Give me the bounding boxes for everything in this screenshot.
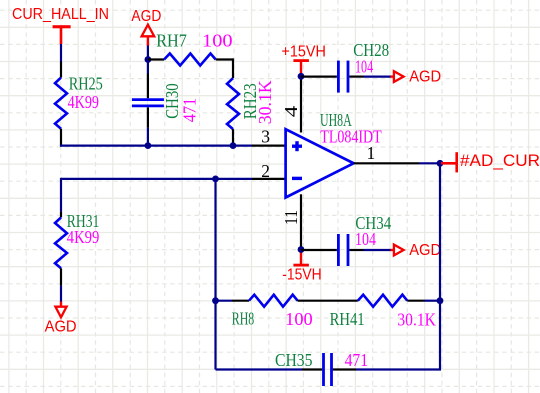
resistor RH31 — [55, 211, 100, 286]
svg-text:4K99: 4K99 — [68, 92, 100, 112]
power AGD (right of CH34) — [391, 242, 442, 259]
svg-text:471: 471 — [345, 350, 369, 370]
power AGD (right of CH28) — [391, 69, 442, 86]
pin 4 lead — [300, 76, 302, 132]
svg-text:4K99: 4K99 — [67, 227, 100, 247]
svg-text:100: 100 — [202, 31, 233, 51]
svg-text:AGD: AGD — [45, 319, 77, 336]
node junction RH7/CH30 — [145, 56, 152, 63]
pin 11 lead — [300, 194, 302, 249]
svg-text:471: 471 — [180, 98, 200, 123]
capacitor CH30 — [132, 74, 200, 128]
svg-text:AGD: AGD — [409, 242, 441, 259]
wire feedback left vertical — [214, 179, 216, 370]
resistor RH7 — [148, 31, 233, 66]
svg-text:2: 2 — [261, 161, 270, 181]
resistor RH23 — [227, 58, 275, 146]
wire — [60, 44, 62, 62]
capacitor CH28 — [338, 40, 389, 93]
wire output net — [419, 162, 441, 164]
op-amp U (UH8A TL084IDT) — [286, 110, 382, 198]
wire pin3 net — [60, 145, 252, 147]
wire — [364, 249, 392, 251]
wire — [364, 75, 392, 77]
svg-text:30.1K: 30.1K — [255, 80, 275, 124]
svg-text:CH35: CH35 — [275, 350, 313, 370]
svg-text:1: 1 — [367, 143, 376, 163]
node junction pin2/feedback — [212, 176, 219, 183]
svg-text:4: 4 — [281, 105, 301, 117]
wire — [425, 300, 441, 302]
svg-text:104: 104 — [355, 229, 376, 249]
pin 1 lead — [354, 162, 419, 164]
svg-text:104: 104 — [355, 57, 373, 77]
svg-text:100: 100 — [285, 309, 313, 329]
node junction output — [437, 160, 444, 167]
node junction CH30 bottom — [145, 142, 152, 149]
resistor RH25 — [55, 62, 103, 146]
resistor RH8 — [232, 295, 358, 330]
svg-text:+15VH: +15VH — [281, 44, 326, 61]
node junction RH8/left — [212, 297, 219, 304]
power -15VH — [282, 250, 322, 284]
svg-text:RH8: RH8 — [232, 308, 255, 328]
wire — [301, 75, 337, 77]
port #AD_CUR — [441, 151, 540, 173]
svg-text:RH7: RH7 — [156, 31, 187, 51]
capacitor CH34 — [338, 213, 391, 266]
op-amp UH8A pins 2/3 leads — [252, 146, 286, 179]
wire — [147, 128, 149, 147]
svg-text:CUR_HALL_IN: CUR_HALL_IN — [12, 6, 109, 23]
wire — [216, 300, 233, 302]
node junction pin11/-15VH — [298, 246, 305, 253]
svg-text:AGD: AGD — [409, 69, 441, 86]
wire feedback right vertical — [439, 163, 441, 369]
wire — [301, 249, 337, 251]
node junction pin4/+15VH — [298, 73, 305, 80]
svg-text:3: 3 — [261, 126, 270, 146]
svg-text:RH41: RH41 — [330, 309, 365, 329]
svg-text:-15VH: -15VH — [282, 266, 322, 283]
svg-text:RH25: RH25 — [69, 73, 103, 93]
node junction RH23 bottom — [230, 142, 237, 149]
wire — [60, 286, 62, 302]
svg-text:30.1K: 30.1K — [397, 309, 436, 329]
port CUR_HALL_IN — [12, 6, 109, 44]
node junction RH41/right — [437, 297, 444, 304]
wire pin2 net — [61, 178, 252, 212]
ground AGD (bottom left) — [45, 302, 77, 336]
svg-text:AGD: AGD — [131, 8, 161, 25]
power +15VH — [281, 44, 326, 76]
power AGD (top) — [131, 8, 161, 46]
wire AGD net vertical — [147, 46, 149, 74]
wire CH35 net right — [356, 368, 441, 370]
resistor RH41 — [330, 295, 437, 330]
svg-text:11: 11 — [281, 210, 301, 225]
svg-text:#AD_CUR: #AD_CUR — [460, 151, 540, 170]
wire CH35 net left — [216, 368, 303, 370]
capacitor CH35 — [275, 350, 368, 386]
